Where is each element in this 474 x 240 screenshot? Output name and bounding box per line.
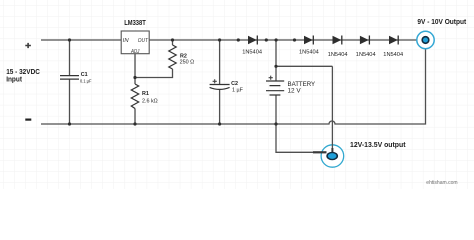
svg-text:C2: C2 xyxy=(231,81,238,87)
svg-text:Input: Input xyxy=(6,75,22,84)
svg-text:9V - 10V Output: 9V - 10V Output xyxy=(417,17,466,26)
svg-text:1N5404: 1N5404 xyxy=(299,50,320,56)
svg-text:LM338T: LM338T xyxy=(124,20,146,27)
svg-text:250 Ω: 250 Ω xyxy=(180,59,195,65)
svg-text:C1: C1 xyxy=(81,72,88,78)
svg-text:1N5404: 1N5404 xyxy=(356,52,377,58)
svg-text:1N5404: 1N5404 xyxy=(242,50,263,56)
svg-text:12V-13.5V output: 12V-13.5V output xyxy=(350,140,406,149)
svg-text:1N5404: 1N5404 xyxy=(328,52,349,58)
svg-text:IN: IN xyxy=(123,38,130,44)
svg-text:12 V: 12 V xyxy=(288,87,302,94)
svg-text:2.6 kΩ: 2.6 kΩ xyxy=(142,98,158,104)
svg-text:1 µF: 1 µF xyxy=(232,88,244,94)
svg-text:ehtisham.com: ehtisham.com xyxy=(426,180,458,186)
svg-text:0.1 µF: 0.1 µF xyxy=(80,79,91,85)
svg-text:ADJ: ADJ xyxy=(130,49,139,55)
svg-text:R1: R1 xyxy=(142,91,149,97)
svg-text:1N5404: 1N5404 xyxy=(383,52,404,58)
svg-text:OUT: OUT xyxy=(138,38,149,44)
